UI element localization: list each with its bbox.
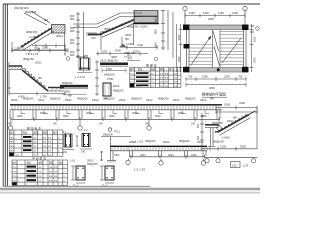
svg-text:3000: 3000 (132, 112, 138, 115)
svg-text:3000: 3000 (168, 154, 174, 157)
svg-text:750: 750 (188, 75, 193, 79)
svg-text:4800: 4800 (209, 86, 215, 90)
svg-text:900: 900 (70, 29, 75, 33)
svg-text:2Φ12: 2Φ12 (200, 98, 207, 102)
svg-text:4800: 4800 (111, 55, 117, 59)
svg-text:2Φ12: 2Φ12 (35, 61, 42, 65)
svg-text:PTL2: PTL2 (13, 172, 19, 174)
svg-text:3000: 3000 (17, 115, 23, 118)
svg-text:Φ8@200: Φ8@200 (25, 10, 37, 14)
svg-text:Φ8@200: Φ8@200 (145, 139, 156, 143)
svg-text:PTL1: PTL1 (114, 130, 120, 133)
svg-text:3300: 3300 (240, 145, 246, 149)
svg-text:平 台 梁 表: 平 台 梁 表 (32, 155, 46, 160)
svg-text:1:25: 1:25 (232, 163, 238, 167)
svg-text:Φ8@150: Φ8@150 (212, 121, 223, 125)
svg-text:Φ8@200: Φ8@200 (103, 134, 113, 137)
svg-text:TL-1: TL-1 (73, 183, 79, 187)
svg-text:2Φ: 2Φ (160, 85, 163, 88)
svg-text:750: 750 (250, 25, 255, 28)
svg-text:900: 900 (197, 135, 200, 140)
svg-text:1:25: 1:25 (243, 163, 249, 167)
svg-text:PTL3: PTL3 (13, 176, 19, 178)
svg-text:3300: 3300 (115, 48, 121, 52)
svg-text:1:10: 1:10 (70, 159, 76, 163)
svg-text:Φ8@200: Φ8@200 (104, 73, 115, 77)
svg-text:2Φ12: 2Φ12 (56, 34, 63, 38)
svg-text:Φ8: Φ8 (38, 76, 42, 80)
svg-text:1650: 1650 (254, 36, 257, 42)
svg-text:1500: 1500 (114, 154, 120, 157)
svg-text:Φ8@150: Φ8@150 (23, 57, 34, 61)
svg-text:Φ8@200: Φ8@200 (104, 97, 115, 101)
svg-text:1250: 1250 (232, 11, 238, 15)
svg-text:Φ8: Φ8 (233, 116, 237, 120)
svg-text:2Φ12: 2Φ12 (11, 98, 18, 102)
svg-text:900: 900 (154, 29, 158, 34)
svg-text:TL-2: TL-2 (102, 183, 108, 187)
svg-text:2Φ12: 2Φ12 (163, 140, 170, 144)
svg-text:Φ8: Φ8 (125, 37, 129, 41)
svg-text:2200: 2200 (202, 75, 208, 79)
svg-text:2400: 2400 (191, 154, 197, 157)
svg-text:1200: 1200 (137, 43, 143, 47)
svg-text:梯 梁 表: 梯 梁 表 (146, 63, 157, 68)
svg-text:2Φ: 2Φ (160, 77, 163, 80)
svg-text:240: 240 (63, 151, 68, 154)
svg-text:2Φ12: 2Φ12 (125, 33, 132, 37)
svg-text:2Φ12: 2Φ12 (113, 84, 120, 88)
svg-text:900: 900 (197, 123, 200, 128)
svg-text:2Φ12: 2Φ12 (119, 98, 126, 102)
svg-text:Φ8@200: Φ8@200 (179, 139, 190, 143)
svg-text:240: 240 (81, 151, 86, 154)
svg-text:PTL4: PTL4 (13, 181, 19, 183)
svg-text:3000: 3000 (140, 154, 146, 157)
svg-text:1500: 1500 (106, 67, 112, 71)
svg-text:Φ8: Φ8 (68, 93, 72, 97)
svg-text:900: 900 (70, 41, 75, 45)
svg-text:2Φ: 2Φ (160, 81, 163, 84)
svg-text:750: 750 (238, 75, 243, 79)
svg-text:3300: 3300 (239, 101, 245, 105)
svg-text:2Φ12: 2Φ12 (38, 98, 45, 102)
svg-text:3000: 3000 (86, 112, 92, 115)
svg-text:900: 900 (70, 17, 75, 21)
svg-text:Φ8: Φ8 (120, 23, 124, 27)
svg-text:PTB1: PTB1 (107, 77, 114, 81)
svg-text:TB-4 1:25: TB-4 1:25 (26, 52, 39, 56)
svg-text:Φ8@200 L=1500: Φ8@200 L=1500 (127, 25, 148, 29)
svg-text:PTL1: PTL1 (13, 167, 19, 169)
svg-text:1650: 1650 (178, 34, 181, 40)
svg-text:2Φ12: 2Φ12 (92, 98, 99, 102)
svg-text:Φ8@200: Φ8@200 (158, 97, 169, 101)
svg-text:2200: 2200 (224, 75, 230, 79)
svg-text:Φ8@200: Φ8@200 (77, 97, 88, 101)
svg-text:3300: 3300 (34, 46, 40, 50)
svg-text:1-1 1:10: 1-1 1:10 (75, 75, 85, 79)
svg-text:1500: 1500 (14, 46, 20, 50)
svg-text:Φ8@200: Φ8@200 (62, 81, 73, 85)
svg-text:Φ8@200: Φ8@200 (124, 51, 135, 55)
svg-text:L=250: L=250 (124, 55, 132, 59)
svg-text:Φ8@200: Φ8@200 (113, 89, 124, 93)
svg-text:Φ8: Φ8 (210, 97, 214, 101)
svg-text:2200: 2200 (254, 57, 257, 63)
svg-text:900: 900 (70, 53, 75, 57)
svg-text:Φ8@200: Φ8@200 (23, 97, 34, 101)
svg-text:Φ8@150: Φ8@150 (104, 27, 115, 31)
svg-text:2Φ: 2Φ (160, 73, 163, 76)
svg-text:L=500: L=500 (222, 136, 230, 140)
svg-text:2Φ12: 2Φ12 (129, 140, 136, 144)
svg-text:Φ8@200: Φ8@200 (50, 97, 61, 101)
svg-text:Φ8@200: Φ8@200 (185, 97, 196, 101)
svg-text:Φ8@200: Φ8@200 (87, 162, 98, 166)
svg-text:2400: 2400 (64, 90, 70, 94)
svg-text:150: 150 (91, 36, 96, 40)
svg-text:2Φ12: 2Φ12 (87, 159, 94, 163)
svg-text:3000: 3000 (178, 112, 184, 115)
svg-text:1250: 1250 (218, 11, 224, 15)
svg-text:3000: 3000 (63, 115, 69, 118)
svg-text:900: 900 (154, 17, 158, 22)
svg-text:Φ8@200: Φ8@200 (76, 55, 87, 59)
svg-text:1250: 1250 (203, 11, 209, 15)
svg-text:900: 900 (154, 42, 158, 47)
svg-text:Φ8@150: Φ8@150 (26, 30, 38, 34)
svg-text:L=2500: L=2500 (29, 35, 39, 39)
svg-text:2500: 2500 (208, 17, 214, 21)
svg-text:1500: 1500 (220, 145, 226, 149)
svg-text:3300: 3300 (42, 46, 49, 50)
svg-text:L=300: L=300 (126, 42, 134, 46)
svg-text:2Φ12: 2Φ12 (173, 98, 180, 102)
svg-text:Φ8: Φ8 (44, 18, 48, 22)
svg-text:3000: 3000 (40, 112, 46, 115)
svg-text:1500: 1500 (224, 103, 230, 107)
svg-text:Φ8@200: Φ8@200 (213, 140, 224, 144)
svg-text:L-2 1:25: L-2 1:25 (134, 168, 145, 172)
svg-text:3000: 3000 (155, 115, 161, 118)
svg-text:Φ8@200: Φ8@200 (131, 97, 142, 101)
svg-text:2Φ12: 2Φ12 (65, 98, 72, 102)
svg-text:150: 150 (250, 31, 255, 34)
svg-text:1500: 1500 (101, 49, 107, 53)
svg-text:3000: 3000 (109, 115, 115, 118)
svg-text:2200: 2200 (178, 56, 181, 62)
svg-text:1250: 1250 (189, 11, 195, 15)
svg-text:楼梯结构平面图: 楼梯结构平面图 (202, 92, 226, 97)
svg-text:2Φ12: 2Φ12 (146, 98, 153, 102)
svg-text:2Φ12 Φ8@200: 2Φ12 Φ8@200 (100, 59, 118, 63)
svg-text:1.700: 1.700 (40, 94, 47, 98)
